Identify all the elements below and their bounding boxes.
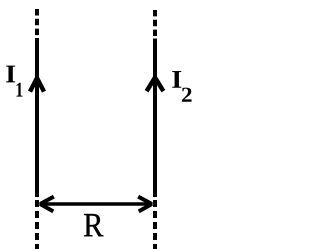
label I1: letter I <box>6 66 15 83</box>
wire 1 bottom dashed segment <box>35 200 39 249</box>
current I1 arrow head (up) <box>30 76 44 91</box>
label I2: subscript 2 <box>182 88 192 102</box>
wire 2 bottom dashed segment <box>153 200 157 249</box>
wire 1 top dashed segment <box>35 9 39 35</box>
wire 2 solid segment <box>153 39 157 198</box>
separation arrow R shaft <box>43 202 149 206</box>
separation arrow right head <box>138 197 153 212</box>
separation arrow left head <box>38 197 53 212</box>
wire 2 top dashed segment <box>153 10 157 36</box>
wire 1 solid segment <box>35 38 39 197</box>
label R <box>84 214 103 236</box>
label I1: subscript 1 <box>17 83 23 97</box>
label I2: letter I <box>172 71 181 88</box>
current I2 arrow head (up) <box>147 76 164 91</box>
